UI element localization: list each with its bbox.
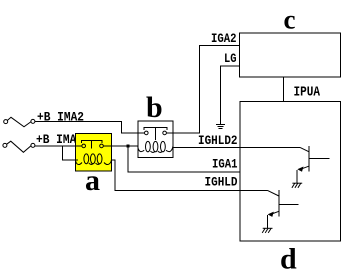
svg-text:LG: LG xyxy=(224,51,237,66)
relay box b xyxy=(138,121,173,158)
switch SW1 (+B IMA2) xyxy=(4,117,35,127)
wire IPUA: box c to box d xyxy=(283,77,285,101)
ground G3 (Q2 emitter) xyxy=(262,228,272,233)
svg-text:IGHLD2: IGHLD2 xyxy=(198,133,238,148)
svg-text:IGA1: IGA1 xyxy=(212,156,238,171)
wire branch to relay a coil xyxy=(63,146,78,160)
svg-text:d: d xyxy=(280,243,297,276)
switch SW2 (+B IMA1) xyxy=(3,141,35,152)
relay b coil xyxy=(138,141,173,152)
block box d xyxy=(240,102,341,242)
svg-text:a: a xyxy=(85,164,100,197)
svg-text:IGHLD: IGHLD xyxy=(205,175,238,190)
relay a coil xyxy=(76,154,112,165)
block box c xyxy=(240,33,341,77)
svg-text:+B IMA2: +B IMA2 xyxy=(37,109,84,124)
transistor Q2 xyxy=(268,190,299,228)
junction node xyxy=(127,145,130,148)
relay box a (yellow) xyxy=(76,134,112,172)
wire switch SW1 to relay b contact xyxy=(35,122,144,134)
wire IGA2: relay b contact up to box c xyxy=(166,45,239,133)
svg-text:IGA2: IGA2 xyxy=(211,31,237,46)
svg-text:b: b xyxy=(146,91,163,124)
wire switch SW2 to relay a contact xyxy=(35,145,82,147)
wire IGA1: junction down to box d xyxy=(128,148,240,172)
relay b contact xyxy=(144,128,167,140)
ground G2 (Q1 emitter) xyxy=(292,183,302,188)
relay a contact xyxy=(82,141,112,149)
svg-text:IPUA: IPUA xyxy=(294,85,321,101)
wire relay a contact to relay b coil xyxy=(112,145,138,147)
wire IGHLD2: relay b coil to transistor Q1 base xyxy=(173,146,300,148)
transistor Q1 xyxy=(297,146,329,183)
ground G1 xyxy=(216,124,225,128)
wire IGHLD: relay a coil to box d and transistor Q2 base xyxy=(112,160,268,191)
wire LG: box c to ground xyxy=(220,66,239,124)
svg-text:c: c xyxy=(284,5,296,35)
